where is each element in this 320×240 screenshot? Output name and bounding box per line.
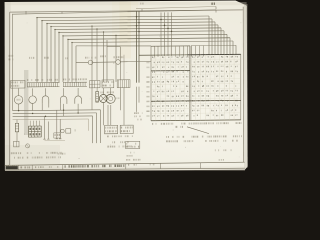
lower bus junction dots (18, 109, 79, 117)
caption block 3 (46, 152, 62, 159)
sheet header note right (211, 3, 215, 5)
caption block 2 (27, 152, 43, 159)
bus wire row 6 (59, 31, 224, 33)
relay contact block KM1 (29, 121, 42, 138)
strip right cells note (128, 164, 154, 166)
terminal pair X3 (14, 141, 19, 147)
fuse F1 (88, 60, 93, 65)
terminal strip X2 (comb) (63, 82, 87, 86)
type label A-500 (20, 166, 30, 168)
short feed wires above table (155, 46, 204, 57)
instrument P1 (gauge) (14, 88, 22, 110)
motor M2 (106, 88, 115, 103)
caption under terminal boxes (107, 135, 133, 147)
scanner background (0, 0, 250, 174)
contact block K3 (117, 80, 130, 88)
right riser wires from bus into table (209, 16, 236, 55)
staircase corner dots (36, 16, 116, 43)
resistor R1 (15, 120, 18, 142)
coil L1 (hatched bar) (96, 88, 99, 102)
caption block 4 (58, 153, 66, 155)
plug contacts SP2 (45, 110, 66, 141)
terminal strip X1 (comb) (27, 82, 60, 87)
contact block K1 (90, 81, 101, 88)
wire to table top-left (76, 45, 151, 47)
fuse F2 (116, 60, 121, 65)
caption block 1 (11, 152, 24, 159)
table cell entries (152, 56, 238, 117)
terminal strip labels row (27, 78, 87, 81)
junction dots on bus (136, 16, 173, 33)
left riser wires from bus to terminal strips (37, 17, 76, 82)
table section dividers (151, 70, 241, 101)
sheet header note left (140, 3, 143, 5)
plug contacts SP1 (43, 116, 49, 139)
riser wires to table columns (161, 12, 172, 56)
mid wire labels (100, 55, 114, 64)
main feeder pair wires (137, 11, 140, 83)
contact S1 (42, 88, 49, 110)
lower bus wires (13, 110, 101, 120)
table row labels (146, 62, 149, 117)
mid riser wires (104, 32, 117, 82)
fuse labels (85, 56, 124, 58)
wires below contact blocks (92, 26, 139, 126)
note line D (215, 149, 232, 151)
bus wire row 4 (51, 25, 218, 27)
bus wire row 0 (tilted) (136, 7, 216, 9)
bus wire row 2 (42, 19, 212, 21)
strip small note (35, 166, 58, 168)
mid-bottom relay row (61, 129, 76, 134)
wire number labels mid-left (9, 54, 68, 60)
bus wire row 9 (72, 41, 233, 43)
border frame (10, 7, 244, 166)
left margin feeder wire (12, 14, 14, 111)
scan specks (24, 20, 241, 159)
contact S3 (75, 88, 82, 113)
distribution wire to table (139, 54, 189, 56)
small device block X4 (54, 133, 61, 138)
paper sheet (5, 1, 248, 171)
contact block K2 (102, 80, 114, 88)
stamp box B1 (126, 141, 140, 148)
title strip top line (5, 162, 245, 165)
outer bottom border (5, 168, 245, 170)
small lamp H1 (26, 144, 30, 148)
note line B (166, 135, 242, 138)
note line C (166, 140, 238, 143)
table column lines (156, 45, 234, 120)
fuse wire row (76, 61, 151, 62)
terminal box XT2 (120, 125, 133, 134)
paper edge shading (5, 2, 248, 171)
wire across table top (191, 44, 236, 46)
wire end ticks on top bus (26, 7, 216, 15)
table label (176, 126, 184, 128)
title strip dividers (18, 163, 200, 170)
bus wire row 8 (68, 38, 230, 40)
paper stains (5, 2, 138, 171)
drawing title text (65, 165, 125, 168)
caption under table (152, 122, 242, 125)
motor cluster labels (100, 91, 119, 99)
note text block right of boxes (134, 112, 142, 120)
sheet number note above strip (126, 158, 224, 162)
terminal box XT1 (105, 125, 118, 134)
table row lines (151, 59, 241, 113)
connection table outline (151, 45, 241, 120)
instrument P2 (gauge) (29, 88, 37, 110)
leader line (187, 127, 209, 134)
bus wire row 3 (47, 22, 215, 24)
drawing number stamp (6, 166, 18, 170)
lower bus corner drops (89, 110, 101, 143)
contact S2 (60, 88, 67, 116)
bus wire row 1 (37, 16, 209, 18)
motor M1 (99, 88, 107, 103)
bus wire row 5 (55, 28, 221, 30)
bus wire row 7 (63, 34, 227, 36)
small note below stamp (127, 152, 135, 157)
device label box left (11, 80, 25, 88)
